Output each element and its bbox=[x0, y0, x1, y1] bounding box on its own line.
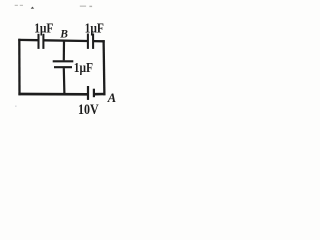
capacitor C3 1uF (middle) plates bbox=[53, 61, 74, 67]
wire: bottom side, right segment (battery to corner) bbox=[95, 93, 106, 96]
battery 10V: long plate bbox=[87, 86, 89, 100]
battery 10V: short plate bbox=[93, 89, 95, 98]
wire: right side bbox=[102, 40, 105, 95]
faint print-through dash 3 bbox=[80, 6, 86, 7]
svg-text:A: A bbox=[107, 91, 116, 105]
svg-text:1μF: 1μF bbox=[74, 60, 93, 75]
capacitor C1 1uF (top left) plates bbox=[39, 34, 44, 49]
wire: top side, left segment (corner to C1) bbox=[18, 39, 37, 42]
faint print-through dash 4 bbox=[89, 6, 92, 7]
svg-text:10V: 10V bbox=[78, 101, 99, 117]
wire: top side, middle segment (C1 to C2) bbox=[44, 39, 87, 42]
capacitor C2 1uF (top right) plates bbox=[88, 34, 93, 49]
faint print-through dash 2 bbox=[20, 5, 23, 6]
wire: bottom side, left segment (corner to battery) bbox=[18, 93, 87, 96]
wire: branch node B down to C3 bbox=[63, 41, 65, 61]
svg-text:1μF: 1μF bbox=[85, 20, 104, 35]
wire: top side, right segment (C2 to corner) bbox=[94, 40, 105, 43]
faint print-through mark bbox=[31, 7, 35, 9]
wire: left side bbox=[18, 39, 21, 95]
wire: branch C3 down to bottom wire bbox=[63, 68, 66, 94]
svg-text:1μF: 1μF bbox=[34, 20, 53, 35]
faint print-through dash 1 bbox=[15, 5, 18, 6]
faint speck bottom-left bbox=[15, 106, 17, 107]
svg-text:B: B bbox=[59, 29, 68, 41]
